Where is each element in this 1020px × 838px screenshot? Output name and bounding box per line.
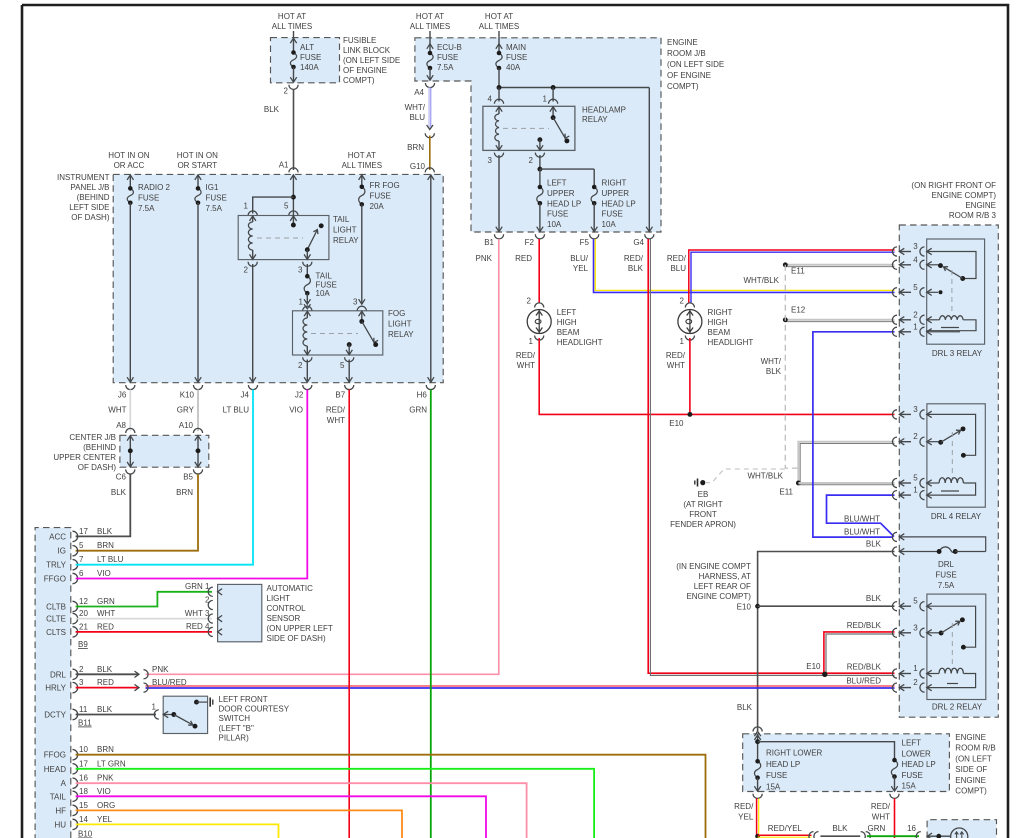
svg-text:GRN: GRN [409,406,427,415]
wire DRL4 pin1 internal [941,490,959,492]
svg-text:WHT: WHT [872,812,890,821]
svg-text:RED/: RED/ [666,351,686,360]
relay DRL4 box [927,404,985,507]
svg-text:ENGINE: ENGINE [965,201,996,210]
headlamp relay switch [550,106,569,143]
svg-text:HIGH: HIGH [557,318,577,327]
fuse TAIL 10A [299,264,311,307]
svg-text:ROOM R/B: ROOM R/B [955,744,995,753]
svg-text:A8: A8 [116,421,126,430]
connector K10 [180,385,203,400]
pin A 16 [61,774,114,789]
svg-text:16: 16 [79,774,88,783]
svg-text:BLK: BLK [97,705,113,714]
svg-text:2: 2 [529,156,534,165]
tail relay coil [248,216,255,260]
label IG1 FUSE 7.5A [206,183,227,213]
svg-text:FUSIBLE: FUSIBLE [343,36,376,45]
label ENGINE ROOM J/B [667,38,724,91]
svg-text:LIGHT: LIGHT [388,319,412,328]
wire BLU/YEL F5-DRL3 [594,239,895,292]
fog relay switch [359,311,379,347]
connector DRL2 pin5 [892,597,931,611]
svg-text:ROOM J/B: ROOM J/B [667,49,706,58]
svg-text:HEAD LP: HEAD LP [766,760,800,769]
label DRL 3 RELAY [932,349,983,358]
svg-text:LIGHT: LIGHT [267,594,291,603]
svg-text:SWITCH: SWITCH [219,714,251,723]
wire WHT/BLK E11 to DRL4 pin5 [798,483,894,485]
svg-text:LEFT SIDE: LEFT SIDE [69,203,109,212]
fuse FR FOG 20A [353,174,365,306]
label HOT AT ALL TIMES (ECU-B) [410,12,450,31]
wire MAIN feed [496,31,502,49]
center J/B wire A10-B5 [195,435,201,467]
svg-text:ORG: ORG [97,801,115,810]
label ENGINE ROOM R/B [955,733,995,796]
label WHT/BLK upper [743,276,779,285]
svg-text:OF ENGINE: OF ENGINE [667,71,711,80]
label LEFT FRONT DOOR COURTESY SWITCH [219,695,290,742]
wire RED/YEL horizontal [758,835,812,837]
svg-text:17: 17 [79,759,88,768]
svg-text:BLK: BLK [264,105,280,114]
pin CLTS 21 [46,622,114,637]
svg-text:TRLY: TRLY [46,561,67,570]
pin HU 14 [54,815,112,830]
svg-text:LEFT: LEFT [547,179,567,188]
wire BLK E10 to DRL2 pin5 [758,594,895,606]
svg-text:1: 1 [913,322,918,331]
svg-text:WHT: WHT [517,361,535,370]
label RED/YEL [768,824,803,833]
wire RED/BLK E10 to DRL2 pin1 [824,663,895,676]
svg-text:4: 4 [913,255,918,264]
svg-text:INSTRUMENT: INSTRUMENT [57,173,110,182]
svg-text:CENTER J/B: CENTER J/B [69,433,116,442]
svg-text:(BEHIND: (BEHIND [83,443,116,452]
svg-text:FFOG: FFOG [44,751,66,760]
svg-text:10A: 10A [547,220,562,229]
node E10 headlight [669,412,692,428]
label DRL 4 RELAY [931,512,982,521]
tail relay pin5 stub [290,216,296,228]
wire DRL2 pin5 internal [927,606,976,649]
svg-text:5: 5 [284,202,289,211]
svg-text:VIO: VIO [97,787,111,796]
svg-text:20: 20 [79,609,88,618]
wire ORG HF [76,810,402,838]
relay DRL4 switch arm [941,426,966,442]
node E11 upper [783,262,805,275]
svg-text:HARNESS, AT: HARNESS, AT [699,572,751,581]
wire WHT/BLK E12 to DRL3 pin2 [785,320,894,322]
svg-text:BRN: BRN [176,488,193,497]
svg-text:E11: E11 [791,267,805,276]
relay DRL3 coil [927,316,976,331]
svg-text:FUSE: FUSE [935,571,956,580]
svg-text:10A: 10A [316,289,331,298]
svg-text:FR FOG: FR FOG [370,181,400,190]
svg-text:B11: B11 [78,719,92,728]
label B10 [78,830,93,838]
svg-text:FUSE: FUSE [437,53,458,62]
fog relay actuator [311,333,358,335]
wire pin4 drop [488,88,504,104]
svg-text:FUSE: FUSE [300,53,321,62]
svg-text:(ON UPPER LEFT: (ON UPPER LEFT [267,624,333,633]
svg-text:A10: A10 [179,421,194,430]
svg-text:40A: 40A [506,63,521,72]
connector sensor pin1 [185,582,222,596]
label LT BLU (J4) [223,406,250,415]
svg-text:ENGINE: ENGINE [955,733,986,742]
connector fog pin1 [304,304,310,309]
svg-text:FOG: FOG [388,309,405,318]
label CENTER J/B [53,433,116,472]
svg-text:HEAD LP: HEAD LP [547,199,581,208]
pin HEAD 17 [44,759,126,774]
svg-text:HEAD LP: HEAD LP [602,199,636,208]
svg-text:FUSE: FUSE [506,53,527,62]
svg-text:B10: B10 [78,830,93,838]
svg-text:18: 18 [79,787,88,796]
svg-text:E12: E12 [791,306,806,315]
svg-text:YEL: YEL [738,812,754,821]
svg-text:HEADLAMP: HEADLAMP [582,106,626,115]
label HOT AT ALL TIMES (MAIN) [479,12,519,31]
ground door switch [210,698,213,707]
connector DRL3 pin3 [892,242,931,256]
wire VIO FFGO [76,390,308,579]
svg-text:WHT: WHT [108,406,126,415]
connector joint WHT/BLU-BRN [425,125,434,138]
svg-text:E10: E10 [669,419,684,428]
courtesy switch contacts [163,711,197,728]
svg-text:3: 3 [488,156,493,165]
svg-text:SIDE OF DASH): SIDE OF DASH) [267,634,326,643]
svg-text:E11: E11 [779,488,793,497]
svg-text:(ON LEFT SIDE: (ON LEFT SIDE [343,56,400,65]
wire DRL3 pin5 internal [927,290,943,294]
svg-text:AUTOMATIC: AUTOMATIC [267,584,314,593]
wire WHT/BLK E11 to DRL3 pin4 [785,265,894,267]
svg-text:HEAD: HEAD [44,765,66,774]
wire BLU/WHT internal [899,537,985,552]
svg-text:LEFT FRONT: LEFT FRONT [219,695,268,704]
svg-text:2: 2 [298,361,303,370]
svg-text:ENGINE COMPT): ENGINE COMPT) [932,191,997,200]
svg-text:ENGINE: ENGINE [667,38,698,47]
fog relay coil [303,311,311,355]
svg-text:RED/YEL: RED/YEL [768,824,803,833]
wire tail relay pin1 jog [253,197,294,213]
fuse ECU-B 7.5A [427,46,433,80]
svg-text:A1: A1 [279,161,289,170]
svg-text:A4: A4 [414,88,424,97]
svg-text:FUSE: FUSE [206,193,227,202]
connector bottom row b [861,832,871,838]
svg-text:BLK: BLK [832,824,848,833]
connector J4 [241,385,258,400]
svg-text:FENDER APRON): FENDER APRON) [670,520,736,529]
svg-text:2: 2 [913,678,918,687]
svg-text:RED: RED [97,622,114,631]
svg-text:DOOR COURTESY: DOOR COURTESY [219,705,290,714]
label RED (F2) [515,254,532,263]
relay DRL3 box [927,239,985,344]
svg-text:B1: B1 [484,238,494,247]
svg-text:RIGHT: RIGHT [602,179,627,188]
svg-text:4: 4 [488,95,493,104]
relay DRL4 actuator [951,432,953,478]
connector C6 [116,469,135,481]
svg-text:CLTB: CLTB [46,603,66,612]
svg-text:MAIN: MAIN [506,43,526,52]
wire RED/YEL [734,799,759,837]
wire PNK B1-DRL [146,239,499,674]
svg-text:VIO: VIO [97,569,111,578]
svg-text:BLK: BLK [97,527,113,536]
fusible link block box [271,38,340,83]
engine room J/B box [415,38,661,232]
svg-text:YEL: YEL [97,815,113,824]
svg-text:3: 3 [79,678,84,687]
connector DRL3 pin1 [892,322,931,336]
svg-text:ALL TIMES: ALL TIMES [272,22,312,31]
svg-text:2: 2 [284,87,289,96]
svg-text:OR START: OR START [177,161,217,170]
connector fog pin5 [340,357,354,370]
relay DRL3 switch arm [944,267,963,279]
label BLU/YEL (F5) [570,254,589,273]
svg-text:10A: 10A [602,220,617,229]
svg-text:TAIL: TAIL [316,272,333,281]
connector sensor pin2 [205,596,213,610]
fuse LEFT LOWER HEAD LP 15A [891,758,897,791]
svg-text:DRL: DRL [50,670,67,679]
svg-text:HIGH: HIGH [708,318,728,327]
svg-text:OF DASH): OF DASH) [71,213,110,222]
svg-text:CONTROL: CONTROL [267,604,307,613]
svg-text:(LEFT "B": (LEFT "B" [219,724,254,733]
front light bulb [951,828,968,838]
label RIGHT UPPER HEAD LP FUSE 10A [602,179,636,230]
svg-text:PNK: PNK [152,665,169,674]
fog relay pin5 stub [346,342,352,355]
fuse DRL 7.5A [899,547,985,554]
wire RED F2 to left headlight [538,239,540,303]
wire BLK DRL-fuse row [754,552,894,737]
svg-text:2: 2 [913,432,918,441]
wire fog pin5 to B7 [346,360,352,383]
wire RED/WHT right headlight pin1 [666,338,690,414]
svg-text:BLK: BLK [111,488,127,497]
svg-text:PNK: PNK [476,254,493,263]
svg-text:WHT/BLK: WHT/BLK [743,276,779,285]
svg-text:7.5A: 7.5A [437,63,454,72]
label HEADLAMP RELAY [582,106,626,125]
svg-text:COMPT): COMPT) [343,76,375,85]
connector pin 3 relay [488,153,504,165]
svg-text:RIGHT LOWER: RIGHT LOWER [766,749,823,758]
svg-text:DRL: DRL [938,560,955,569]
fuse IG1 7.5A [195,174,201,382]
connector J2 [295,385,312,400]
svg-text:YEL: YEL [573,264,589,273]
svg-text:BLK: BLK [866,540,882,549]
wire A1 internal [290,174,296,215]
svg-text:GRN 1: GRN 1 [185,582,210,591]
svg-text:PILLAR): PILLAR) [219,733,250,742]
connector BLK entry [892,547,904,556]
svg-text:3: 3 [353,298,358,307]
svg-text:ALL TIMES: ALL TIMES [342,161,382,170]
svg-text:2: 2 [680,297,685,306]
pin CLTE 20 [46,609,115,624]
label FOG LIGHT RELAY [388,309,414,339]
svg-text:RIGHT: RIGHT [708,308,733,317]
svg-text:B5: B5 [183,473,193,482]
node RED/YEL joint [755,834,760,838]
svg-text:1: 1 [152,703,157,712]
svg-text:1: 1 [680,337,685,346]
svg-text:OR ACC: OR ACC [114,161,145,170]
courtesy switch box [163,696,207,733]
engine room R/B box [743,734,950,792]
label HOT IN ON OR START [177,151,218,170]
wire ALT fuse feed [290,31,296,46]
relay DRL2 actuator [951,623,953,670]
svg-text:2: 2 [244,266,249,275]
label BLU/WHT b [844,528,880,537]
label RADIO 2 FUSE 7.5A [138,183,171,213]
center J/B wire A8-C6 [127,435,133,467]
svg-text:21: 21 [79,622,88,631]
pin HF 15 [55,801,115,816]
connector bottom row a [809,832,819,838]
pin TAIL 18 [50,787,111,802]
wire RED HRLY pin [76,683,149,692]
svg-text:WHT: WHT [97,609,115,618]
connector lamp box [916,832,932,838]
svg-text:BLK: BLK [97,665,113,674]
svg-text:RED/: RED/ [326,406,346,415]
svg-text:BEAM: BEAM [708,328,731,337]
front light internal [927,834,951,838]
connector DRL4 pin1 [892,486,931,500]
svg-text:BLU: BLU [670,264,686,273]
svg-text:ENGINE: ENGINE [955,776,986,785]
left connector box B9/B11/B10 [35,528,71,838]
label E10 under dot [0,0,1,1]
wire LT GRN HEAD [76,769,595,838]
label BLU/WHT a [844,515,880,524]
svg-text:IG: IG [58,547,66,556]
connector B7 [335,385,353,400]
instrument panel J/B box [113,174,443,382]
svg-text:BLK: BLK [766,367,782,376]
label FR FOG FUSE 20A [370,181,400,211]
pin DRL 2 [50,665,113,680]
svg-text:EB: EB [698,490,709,499]
sensor box [218,584,262,641]
wire DRL2 pin2 internal [947,683,958,685]
svg-text:14: 14 [79,815,88,824]
courtesy switch ground link [194,700,208,705]
svg-text:6: 6 [79,569,84,578]
svg-text:SIDE OF: SIDE OF [955,765,987,774]
svg-text:RED: RED [515,254,532,263]
wire pin3 to B1 [496,155,502,232]
svg-text:3: 3 [913,405,918,414]
label LEFT LOWER HEAD LP FUSE 15A [902,739,936,791]
svg-text:7.5A: 7.5A [138,204,155,213]
svg-text:DRL 2 RELAY: DRL 2 RELAY [932,703,983,712]
svg-text:RED/BLK: RED/BLK [847,663,882,672]
relay tail light box [238,216,329,260]
pin IG 5 [58,541,115,556]
svg-text:RED/: RED/ [516,351,536,360]
dashed bus WHT/BLK [761,265,799,468]
svg-text:HEAD LP: HEAD LP [902,760,936,769]
svg-text:UPPER CENTER: UPPER CENTER [53,453,116,462]
pin HRLY 3 [45,678,114,693]
svg-text:B9: B9 [78,640,88,649]
svg-text:COMPT): COMPT) [667,82,699,91]
svg-text:HOT AT: HOT AT [348,151,376,160]
label BLK row [866,540,882,549]
pin FFOG 10 [44,745,114,760]
svg-text:RELAY: RELAY [333,236,359,245]
svg-text:ECU-B: ECU-B [437,43,462,52]
wire YEL HU [76,824,279,838]
svg-text:OF ENGINE: OF ENGINE [343,66,387,75]
wire BRN B5-IG [76,474,198,551]
center J/B box [120,435,209,467]
label B9 [78,640,88,649]
svg-text:GRN: GRN [868,824,886,833]
svg-text:HOT IN ON: HOT IN ON [108,151,149,160]
svg-text:BLU/WHT: BLU/WHT [844,515,880,524]
node E10 drl2 [806,662,827,677]
connector sensor pin4 [186,622,222,636]
svg-text:PANEL J/B: PANEL J/B [70,183,109,192]
pin CLTB 12 [46,597,115,612]
svg-text:RED/: RED/ [871,802,891,811]
wire RED/WHT E10 to DRL4 [688,413,895,415]
svg-text:1: 1 [529,337,534,346]
svg-text:1: 1 [913,664,918,673]
svg-text:F2: F2 [525,238,535,247]
wire PNK A [76,783,527,838]
svg-text:10: 10 [79,745,88,754]
wire WHT J6-A8 [116,390,135,434]
svg-text:1: 1 [913,486,918,495]
svg-text:12: 12 [79,597,88,606]
svg-text:RED: RED [97,678,114,687]
svg-text:5: 5 [79,541,84,550]
label BLU/RED after connector [152,678,187,687]
label INSTRUMENT PANEL J/B [57,173,110,222]
wire bus to pins 4/1/G4 [497,85,650,90]
svg-text:WHT: WHT [667,361,685,370]
label ECU-B FUSE 7.5A [437,43,462,72]
label RED/BLK (G4) [624,254,644,273]
headlamp relay actuator [503,127,549,129]
svg-text:LOWER: LOWER [902,749,932,758]
svg-text:B7: B7 [335,391,345,400]
